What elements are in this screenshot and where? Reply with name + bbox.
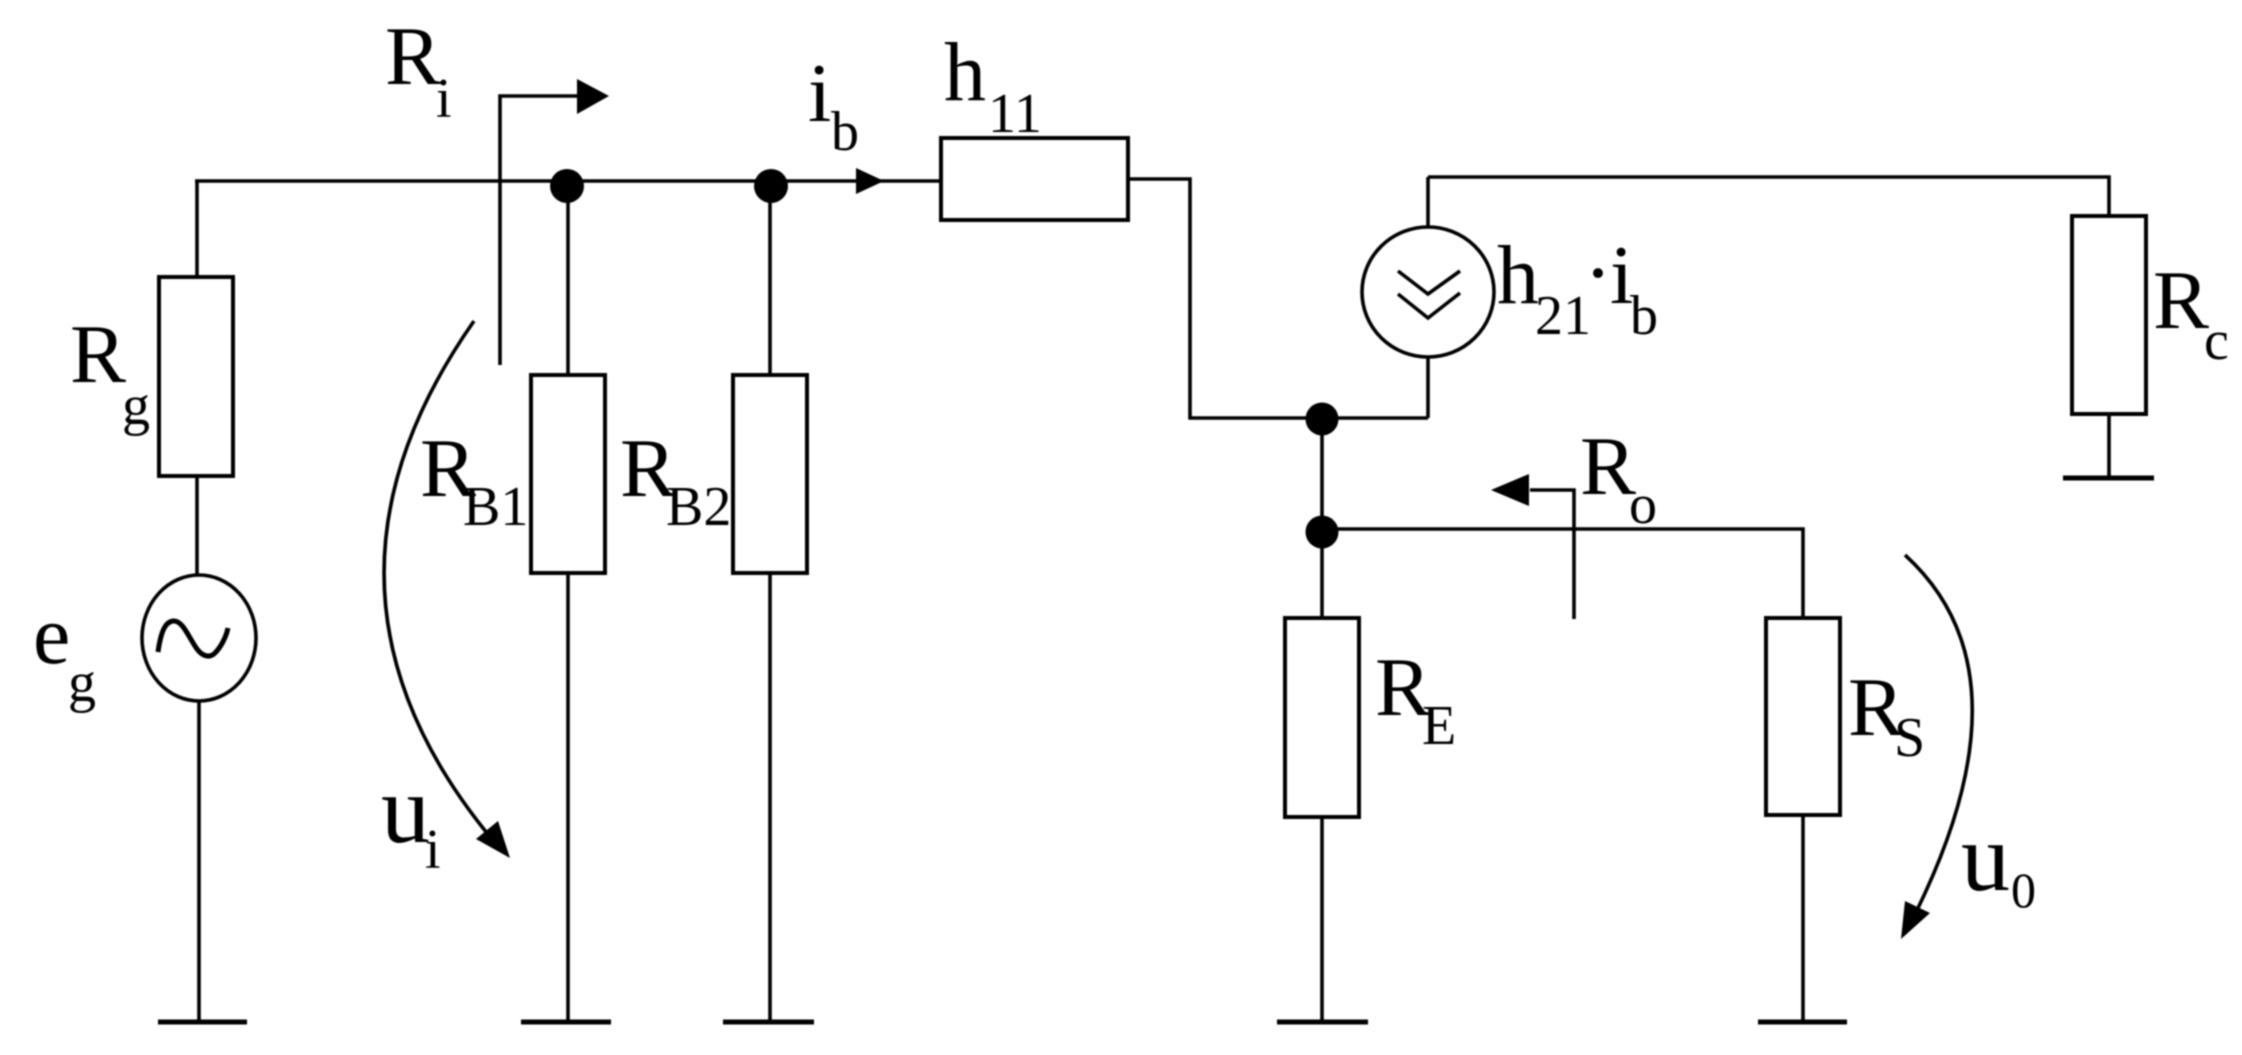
ground (RB2 branch)	[723, 1020, 814, 1025]
svg-text:c: c	[2204, 310, 2229, 372]
label h21·ib	[1497, 227, 1658, 347]
svg-text:E: E	[1422, 695, 1456, 757]
label Ro	[1580, 420, 1657, 536]
wire from RB2 to ground	[768, 573, 772, 1021]
label eg	[33, 589, 96, 714]
svg-text:B1: B1	[463, 476, 528, 538]
svg-text:0: 0	[2011, 862, 2036, 918]
svg-text:B2: B2	[666, 476, 731, 538]
wire from node C down to node D	[1320, 418, 1324, 529]
ground (RB1 branch)	[521, 1020, 611, 1025]
wire left vertical from top wire down to Rg	[195, 181, 199, 277]
svg-text:h: h	[1497, 229, 1539, 322]
svg-text:i: i	[436, 68, 452, 130]
label Ri	[385, 10, 452, 130]
svg-text:R: R	[385, 10, 441, 103]
source eg (sine voltage source)	[142, 575, 256, 701]
svg-text:e: e	[33, 589, 70, 682]
wire from RE to ground	[1320, 817, 1324, 1021]
resistor Rc	[2072, 216, 2146, 414]
wire from node B down to RB2	[768, 182, 772, 375]
node D (junction of RE and output wire)	[1306, 516, 1339, 549]
wire from RB1 to ground	[566, 573, 570, 1021]
wire top-right horizontal to Rc	[1428, 177, 2109, 216]
svg-text:b: b	[1630, 285, 1658, 347]
svg-text:u: u	[381, 756, 430, 864]
label RB1	[420, 422, 528, 538]
node B (junction of RB2)	[754, 169, 788, 203]
svg-text:h: h	[944, 26, 986, 119]
wire from RS to ground	[1801, 815, 1805, 1021]
wire from node D down to RE	[1320, 529, 1324, 618]
wire from node A down to RB1	[566, 182, 570, 375]
label RS	[1848, 661, 1925, 769]
wire from Rg to eg source	[195, 476, 199, 576]
ground (RE branch)	[1277, 1020, 1368, 1025]
wire from current source bottom to node C	[1322, 416, 1428, 420]
svg-text:11: 11	[988, 83, 1042, 145]
wire riser from top wire to current source	[1426, 177, 1430, 227]
wire from current source to node C riser	[1426, 357, 1430, 418]
svg-text:i: i	[425, 819, 441, 881]
svg-text:g: g	[68, 652, 96, 714]
wire from h11 down to node C	[1128, 179, 1322, 418]
svg-text:i: i	[808, 47, 831, 140]
resistor RE	[1285, 618, 1359, 817]
arrow u0 (curved voltage arrow)	[1901, 555, 1972, 939]
node C (junction below current source)	[1306, 403, 1339, 436]
resistor RS	[1766, 618, 1840, 815]
label ui	[381, 756, 441, 881]
measurement arrow Ro	[1491, 474, 1574, 619]
ground (Rc branch)	[2063, 476, 2154, 481]
ground (eg branch)	[158, 1020, 247, 1025]
label h11	[944, 26, 1042, 145]
ground (RS branch)	[1758, 1020, 1847, 1025]
svg-text:S: S	[1894, 707, 1925, 769]
svg-text:u: u	[1961, 804, 2010, 912]
arrow ib (current direction on wire)	[856, 168, 884, 194]
wire top-left horizontal from Rg branch to h11	[195, 179, 941, 183]
wire output from node D to RS	[1322, 529, 1803, 618]
wire from Rc to ground	[2107, 414, 2111, 477]
svg-text:21: 21	[1535, 285, 1591, 347]
svg-text:g: g	[122, 375, 150, 437]
label ib	[808, 47, 859, 163]
wire from eg to ground	[197, 701, 201, 1021]
resistor RB2	[733, 375, 807, 573]
label RE	[1375, 641, 1456, 757]
label u0	[1961, 804, 2036, 918]
current source h21·ib	[1362, 227, 1494, 357]
resistor Rg	[159, 277, 233, 476]
svg-text:·: ·	[1584, 227, 1612, 320]
svg-text:o: o	[1629, 474, 1657, 536]
node A (junction of RB1)	[550, 169, 584, 203]
label Rc	[2153, 254, 2229, 372]
label RB2	[620, 422, 731, 538]
resistor h11	[941, 138, 1128, 220]
arrow ui (curved voltage arrow)	[384, 321, 510, 858]
svg-text:b: b	[831, 101, 859, 163]
measurement arrow Ri	[500, 79, 609, 365]
label Rg	[70, 308, 150, 437]
svg-text:R: R	[70, 308, 126, 401]
svg-text:R: R	[1580, 420, 1636, 513]
svg-text:R: R	[2153, 254, 2209, 347]
resistor RB1	[531, 375, 605, 573]
